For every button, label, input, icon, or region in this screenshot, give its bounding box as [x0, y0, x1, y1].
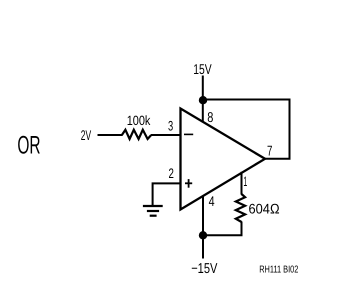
junction node bottom — [199, 231, 207, 239]
svg-text:15V: 15V — [193, 62, 212, 78]
wire pin 2 to ground — [153, 183, 181, 205]
wire pin 1 to resistor R2 — [241, 172, 243, 195]
svg-text:7: 7 — [267, 143, 272, 159]
svg-text:2: 2 — [169, 166, 174, 181]
svg-text:100k: 100k — [127, 113, 151, 128]
svg-text:RH111 BI02: RH111 BI02 — [259, 264, 299, 275]
svg-text:2V: 2V — [81, 127, 92, 143]
wire 2V to resistor R1 — [98, 134, 123, 136]
op-amp U1 triangle — [181, 109, 266, 210]
wire 15V to pin 8 — [202, 76, 204, 123]
junction node top — [199, 96, 207, 104]
minus input symbol — [184, 133, 193, 135]
svg-text:OR: OR — [17, 132, 40, 160]
wire resistor to pin 3 — [151, 134, 181, 136]
svg-text:−15V: −15V — [191, 261, 218, 277]
resistor R2 604 ohm — [236, 194, 245, 222]
svg-text:3: 3 — [168, 119, 173, 134]
wire resistor R2 bottom — [203, 222, 242, 236]
wire feedback top — [203, 100, 290, 159]
svg-text:8: 8 — [207, 110, 213, 126]
svg-text:1: 1 — [243, 174, 247, 189]
svg-text:604Ω: 604Ω — [249, 201, 281, 217]
svg-text:4: 4 — [209, 193, 215, 209]
ground — [143, 205, 163, 207]
wire pin 4 to -15V — [202, 196, 204, 259]
wire output pin 7 — [264, 158, 291, 160]
plus input symbol — [185, 182, 192, 184]
resistor R1 100k — [122, 130, 151, 139]
